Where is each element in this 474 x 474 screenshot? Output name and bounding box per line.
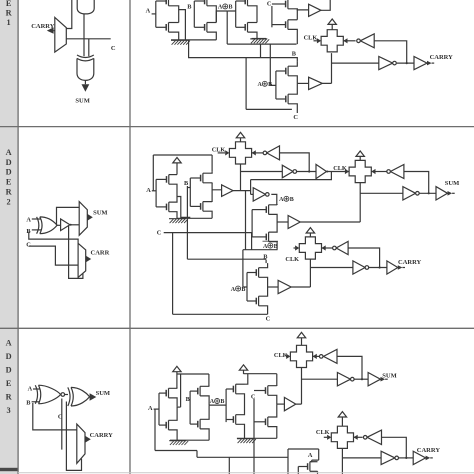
buffer U15 (adder2 CARRY driver) [387,261,398,274]
ground G1 (adder1) [171,40,190,44]
svg-text:B: B [187,4,192,11]
svg-text:CLK: CLK [333,165,347,172]
transistor T7 (adder3 pass, clipped) [298,462,317,472]
wire xor1 out down [83,14,85,56]
label A xor B bar (adder2 sum pass) [263,241,279,250]
svg-text:A: A [6,148,12,157]
inverter K3 (adder2 keeper2) [387,165,404,179]
buffer U5 (adder2 xor buffer) [61,219,72,231]
wire B into xnor (adder3) [32,401,40,403]
buffer U17 (adder3 sum inverter) [337,373,354,386]
wire latch to keeper [343,40,355,42]
svg-text:D: D [6,168,12,177]
wire A outer drop (adder3) [155,409,288,457]
wire bus tie (adder1) [260,44,262,58]
buffer U8 (adder2 mid inverter) [282,165,296,178]
wire A input (adder3) [154,408,159,410]
wire xor out (adder2) [57,224,61,226]
buffer U14 (adder2 carry inverter) [353,261,369,274]
transistor N2 (adder1 B nmos) [194,23,216,40]
label A xor B (adder1 pass gates) [258,81,273,88]
wire ground rail right (adder3) [237,437,277,439]
transistor N5 (adder2 A nmos) [156,197,177,219]
svg-text:E: E [6,379,12,388]
transistor N6 (adder2 B nmos) [190,202,212,219]
buffer U10 (adder2 sum inverter) [403,187,419,200]
transistor N8 (adder3 B nmos) [190,405,209,440]
svg-text:CARRY: CARRY [417,447,441,454]
ground G4 (adder3) [169,441,188,445]
inverter K5 (adder3 keeper1) [319,349,337,363]
wire keeper feedback (adder3 sum) [337,356,362,379]
carry output arrow (adder1) [427,61,434,66]
wire sum latch tap (adder3) [302,378,338,380]
vdd arrow (adder1 latch) [328,19,336,30]
svg-text:SUM: SUM [75,98,89,105]
transistor T2 (adder1 pass bottom) [276,83,297,113]
wire pass gate bracket carry (adder2) [246,273,248,302]
wire stage4 out (adder3) [277,403,285,405]
wire C up to gates (adder2) [251,233,253,250]
wire U2 out to latch [322,53,331,83]
transistor T1 (adder1 pass top) [276,62,297,84]
wire B vertical (adder2) [186,186,188,259]
vdd arrow (adder2 latch1) [236,132,244,142]
label ADDER 2 (vertical strip) [6,148,13,207]
clocked latch X2 (adder2 first latch) [229,142,251,164]
clocked latch X3 (adder2 sum latch) [349,160,371,182]
row divider 2 [0,327,474,329]
inverter U7 (adder2 A xor B inverter) [253,188,269,201]
wire inverted node down (adder2) [271,194,277,205]
transistor P3 (adder1 pmos, clipped) [236,0,257,22]
carry output arrow (adder2) [398,265,405,270]
wire gate vertical B (adder2) [189,178,191,206]
wire carry latch riser (adder3) [341,448,343,474]
wire ground rail 2 (adder1) [252,38,266,40]
xor gate X2 (adder1 sum) [77,55,94,80]
wire carry latch tap (adder3) [342,457,381,459]
wire gate vertical stage1 [155,1,157,27]
label A xor B (adder2 node) [279,196,294,203]
transistor P1 (adder1 A pmos, clipped) [156,0,179,22]
svg-text:B: B [292,51,297,58]
wire keeper1 feedback [280,153,310,172]
wire stage4 output to buffer [297,9,308,10]
junction feedback (adder3 carry) [405,457,407,459]
wire left rail (adder2) [153,155,212,191]
wire bus drops (adder3) [228,457,230,474]
wire latch2 to keeper [371,171,387,173]
wire U3 to carry buffer [397,62,414,64]
svg-text:C: C [157,230,162,237]
transistor T3 (adder2 sum pass top) [252,205,277,222]
buffer U1 (adder1 xor buffer) [309,4,321,16]
wire keeper feedback (adder3 carry) [382,437,407,458]
wire select loop (adder2) [69,225,83,278]
wire U16 up to sum latch [296,368,302,405]
transistor P6 (adder2 B pmos) [190,172,212,183]
wire U12 to latch2 riser [300,221,360,223]
wire carry pass out [268,286,279,288]
svg-text:D: D [6,365,12,374]
wire stage2 output [216,11,227,23]
wire top rail 2 (adder3) [244,374,277,386]
vdd arrow (adder3 stages left) [173,366,181,388]
wire U8 to U9 [297,171,316,173]
wire clk stub (adder2 latch1) [218,152,225,154]
svg-text:C: C [293,114,298,121]
wire AxorB to stage3 gate [227,1,236,27]
transistor P10 (adder3 C pmos) [254,386,277,404]
wire bypass line (adder2) [251,172,332,180]
wire pass input rail (adder3, clipped) [288,449,319,474]
wire pass lead down (adder3) [317,471,319,474]
svg-text:CARR: CARR [91,250,110,257]
svg-text:A: A [146,7,151,14]
wire sum pass out [277,221,288,223]
clocked latch X6 (adder3 carry latch) [331,426,353,448]
wire A input [152,13,156,15]
wire U13 to latch3 riser [291,286,310,288]
transistor N3 (adder1 nmos) [236,23,257,39]
buffer U16 (adder3 xor buffer) [284,397,295,410]
transistor N10 (adder3 C nmos) [254,404,277,438]
inverter K1 (adder1 keeper) [357,34,375,48]
vdd arrow (adder3 sum latch) [297,332,305,345]
wire drop to rail (adder2) [245,191,247,250]
wire latch2 riser [359,183,361,222]
wire B into xor (adder2) [32,229,41,231]
wire C loop (adder3) [66,402,81,471]
label A xor B (adder1 node) [218,4,233,11]
wire clk stub (adder1) [314,40,317,42]
wire keeper2 feedback [404,172,429,194]
wire gate vertical stage4 (adder3) [253,399,255,474]
wire clk stub (adder2 latch3) [294,247,296,249]
xor gate X5 (adder3 sum) [68,387,90,406]
transistor N9 (adder3 nmos) [226,404,244,438]
wire AxorB bus (adder1) [227,43,296,45]
buffer U20 (adder3 CARRY driver) [413,451,425,464]
svg-text:SUM: SUM [96,390,110,397]
inverter K6 (adder3 keeper2) [363,430,381,444]
svg-text:A: A [218,5,223,11]
buffer U2 (adder1 carry buffer) [309,77,323,89]
wire ground rail left (adder3) [170,439,209,441]
wire gate vertical A (adder2) [155,179,157,207]
wire B into pass (adder2) [265,260,267,264]
junction feedback latch3 (adder2) [379,266,381,268]
wire stage1 out (adder3) [177,406,181,408]
wire U19 to carry driver (adder3) [399,457,414,459]
ground G3 (adder2) [169,219,188,223]
svg-text:D: D [6,158,12,167]
ground G2 (adder1) [250,39,269,43]
transistor N4 (adder1 C nmos) [272,20,297,44]
wire U9 to latch2 [327,171,350,173]
mux M4 (adder3 carry mux) [77,424,85,463]
svg-text:B: B [241,287,245,293]
wire latch1 tap [241,171,283,173]
svg-text:B: B [184,180,189,187]
wire gate vertical stage2 [193,1,195,27]
wire riser to latch1 (adder2) [240,163,242,190]
bottom faint rule [18,472,474,474]
wire top rail (adder3) [177,374,209,407]
vdd arrow (adder2 latch2) [356,151,364,160]
vdd arrow (adder2 latch3) [306,228,314,238]
buffer U11 (adder2 SUM driver) [436,187,448,200]
carry mux output arrow (adder3) [85,436,91,443]
junction feedback (adder3 sum) [361,378,363,380]
wire latch3 tap [310,267,353,269]
transistor T6 (adder2 carry pass bottom) [247,287,268,314]
svg-text:A: A [28,386,33,393]
wire gate feed vertical [270,44,276,85]
inverter K2 (adder2 keeper1) [263,146,279,160]
transistor T4 (adder2 sum pass bottom) [252,222,277,250]
svg-text:A: A [263,244,268,250]
wire xor out up to mux [57,207,80,225]
sum mux output arrow (adder2) [87,214,93,221]
xnor gate X4 (adder3) [35,385,64,404]
wire U14 to carry driver [369,267,387,269]
svg-text:A: A [210,399,215,405]
transistor P2 (adder1 B pmos, clipped) [194,0,216,22]
svg-text:C: C [267,1,272,8]
svg-text:R: R [6,392,13,401]
wire gate vertical stage2 (adder3) [189,391,191,424]
svg-text:C: C [266,316,271,323]
wire U17 to sum driver (adder3) [354,378,368,380]
wire bend to inverter (adder2) [251,180,254,195]
wire C loop down (adder2) [173,233,268,315]
svg-text:CARRY: CARRY [90,432,114,439]
ground G5 (adder3) [237,439,256,443]
wire pass gate bracket (adder1) [275,71,277,99]
svg-text:E: E [6,178,12,187]
svg-text:D: D [6,352,12,361]
transistor T5 (adder2 carry pass top) [247,263,268,287]
svg-text:A: A [146,187,151,194]
buffer U18 (adder3 SUM driver) [368,373,380,386]
wire pass gate bracket sum (adder2) [251,210,253,237]
mux M3 (adder2 carry mux) [78,243,86,277]
transistor P9 (adder3 pmos) [226,384,244,404]
svg-text:A: A [26,216,31,223]
mux M1 (adder1 carry mux) [55,17,67,52]
wire A into xnor (adder3) [33,388,40,390]
svg-text:B: B [263,253,268,260]
wire pass outer bracket (adder1) [246,58,292,110]
wire stage2 out (adder3) [209,404,226,406]
svg-text:A: A [258,82,263,88]
wire stage out cross-couple [177,197,190,218]
xor gate X3 (adder2) [37,217,58,234]
wire latch1 to keeper [251,152,263,154]
wire xor node (adder2) [233,190,251,192]
wire B stub to gate (adder2) [187,187,190,189]
wire buffer to mux (adder2) [70,224,79,226]
svg-text:B: B [26,400,31,407]
buffer U3 (adder1 out inverter) [379,57,397,70]
wire AxorB down [226,11,228,44]
svg-text:B: B [220,399,224,405]
wire rail drop right (adder3) [208,374,210,387]
buffer U6 (adder2 xor out) [222,185,233,197]
wire A input (adder2) [152,190,156,192]
clocked latch X1 (adder1 C2MOS) [321,30,343,52]
wire latch2 tap [360,192,403,194]
wire pass top lead up (adder3) [310,460,312,462]
wire latch3 to keeper [321,247,332,249]
svg-text:1: 1 [7,18,11,27]
svg-text:C: C [26,241,31,248]
sum output arrow (adder3) [381,377,388,382]
transistor P5 (adder2 A pmos) [156,175,177,197]
label ADDER 3 (vertical strip) [6,338,13,415]
svg-text:CARRY: CARRY [430,54,454,61]
transistor P8 (adder3 B pmos) [190,386,209,405]
wire buffer U1 out up [321,0,330,10]
svg-text:2: 2 [7,197,11,206]
clocked latch X4 (adder2 carry latch) [299,237,321,259]
strip divider line [17,0,19,474]
svg-text:CARRY: CARRY [398,259,422,266]
junction feedback latch1 (adder2) [308,170,310,172]
wire xnor to xor (adder3) [64,394,68,396]
buffer U19 (adder3 carry inverter) [381,451,398,464]
svg-text:A: A [231,287,236,293]
label A xor B (adder3 node) [210,399,225,406]
sum output arrow (adder3) [90,393,97,400]
wire select vertical 1 (adder3) [61,399,63,450]
svg-text:SUM: SUM [445,180,459,187]
carry output arrow (adder3) [426,456,433,461]
wire U10 to sum driver [419,192,436,194]
wire latch3 riser [309,259,311,287]
label A xor B (adder2 carry pass gates) [231,286,246,293]
svg-text:A: A [6,338,12,347]
wire pass gate drop (adder3) [297,467,299,474]
wire stage2 out to buffer (adder2) [212,183,222,202]
buffer U9 (adder2 mid buffer) [316,164,328,178]
svg-text:CLK: CLK [274,352,288,359]
wire C to carr mux [29,246,78,265]
wire xor1 output to mux top [66,0,72,29]
sum output arrow (adder2) [448,191,455,196]
wire carry arrow to mux [54,30,55,32]
carry output arrow (left) [47,27,54,33]
junction feedback latch2 (adder2) [428,192,430,194]
svg-text:SUM: SUM [93,209,107,216]
svg-text:C: C [111,45,116,52]
wire keeper feedback (adder1) [374,41,407,63]
svg-text:E: E [6,0,12,8]
vdd arrow (adder3 carry latch) [338,412,346,427]
sum output arrow (down) [82,80,90,91]
mux M2 (adder2 sum mux) [79,202,87,236]
buffer U13 (adder2 carry pass buffer) [278,280,291,293]
svg-text:CLK: CLK [316,429,330,436]
wire clk stub (adder3 carry latch) [324,436,327,438]
wire ground rail (adder2) [177,217,212,219]
wire A into xor (adder2) [32,218,41,220]
wire latch to keeper (adder3 carry) [354,436,363,438]
label ADDER 1 (vertical strip) [6,0,13,27]
svg-text:B: B [229,5,233,11]
transistor P7 (adder3 A pmos) [159,388,177,406]
strip bottom black mark [0,468,18,471]
row divider 1 [0,126,474,128]
vdd arrow (adder2 stages) [173,158,181,175]
wire B line to carry pass (adder2) [187,258,266,260]
xor gate X1 bottom (adder1, clipped) [77,0,94,14]
wire pass output to buffer [297,82,308,84]
wire C input to mux [66,38,110,40]
svg-text:CLK: CLK [285,256,299,263]
inverter K4 (adder2 keeper3) [333,241,349,254]
wire keeper3 feedback [348,248,380,268]
wire latch to keeper (adder3 sum) [313,355,320,357]
wire gate vertical stage1 (adder3) [158,393,160,425]
wire C branch down to xor2 [88,39,90,56]
clocked latch X5 (adder3 sum latch) [290,345,312,367]
wire stage1 aux drain [179,10,186,40]
wire B bus to carr mux [29,232,78,244]
wire P9 top lead riser (adder3) [245,374,248,385]
wire AxorB rail (adder2) [243,249,278,251]
wire latch tap (adder1) [332,62,379,64]
wire C input line (adder2) [164,232,252,234]
svg-text:R: R [6,188,13,197]
carr mux output arrow (adder2) [86,256,92,263]
transistor N7 (adder3 A nmos) [159,406,177,440]
svg-text:B: B [268,82,272,88]
wire gates feed (adder2 carry pass) [243,250,247,287]
wire ground rail 1 (adder1) [171,39,216,41]
vdd arrow (adder3 stages right) [239,365,247,374]
svg-text:B: B [290,197,294,203]
svg-text:A: A [148,405,153,412]
wire stage3 bracket (adder3) [225,389,227,422]
svg-text:R: R [6,9,13,18]
label strip background [0,0,18,474]
wire B feed line (adder1) [189,40,298,61]
svg-text:A: A [279,197,284,203]
junction feedback (adder1) [406,62,408,64]
transistor N1 (adder1 A nmos) [156,23,179,40]
svg-text:B: B [274,244,278,250]
svg-text:A: A [308,452,313,459]
panel divider line [129,0,131,474]
wire B down to mux (adder3) [33,403,77,430]
svg-text:SUM: SUM [382,373,396,380]
wire gate vertical stage4 [271,6,273,27]
svg-text:3: 3 [7,406,11,415]
buffer U4 (adder1 CARRY driver) [414,57,427,70]
transistor P4 (adder1 C pmos, clipped) [272,0,297,20]
buffer U12 (adder2 sum pass buffer) [288,216,300,229]
